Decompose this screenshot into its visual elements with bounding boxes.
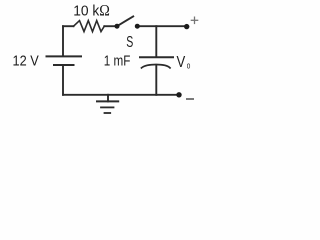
svg-text:V: V [177, 54, 186, 71]
svg-text:S: S [126, 33, 133, 51]
svg-text:o: o [187, 60, 191, 71]
svg-text:10 kΩ: 10 kΩ [73, 3, 110, 20]
svg-text:1 mF: 1 mF [104, 52, 131, 69]
svg-text:12 V: 12 V [13, 51, 40, 68]
